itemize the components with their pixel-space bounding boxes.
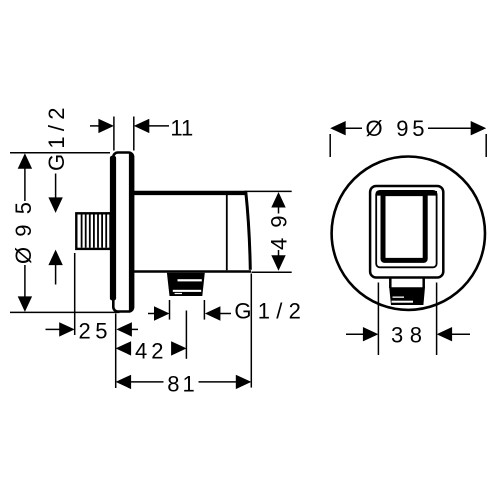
- svg-text:G1/2: G1/2: [234, 299, 301, 324]
- svg-text:11: 11: [170, 116, 193, 141]
- svg-text:G1/2: G1/2: [44, 108, 69, 172]
- svg-text:Ø95: Ø95: [11, 202, 36, 264]
